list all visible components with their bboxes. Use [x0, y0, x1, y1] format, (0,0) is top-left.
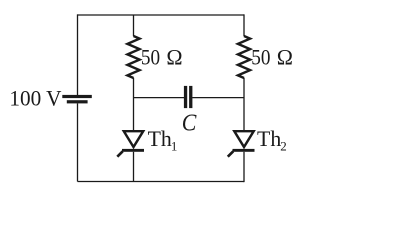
resistor R2 50 ohm (zigzag)	[238, 36, 250, 78]
svg-text:C: C	[182, 111, 198, 137]
wire: left rail lower (battery to bottom rail)	[77, 103, 79, 181]
wire: branch-1 upper (top rail to R1)	[133, 15, 135, 36]
resistor R1 50 ohm (zigzag)	[127, 36, 139, 78]
svg-text:100 V: 100 V	[9, 86, 61, 110]
wire: right rail lower (Th2 to bottom rail)	[243, 152, 245, 182]
wire: middle link left (branch-1 to capacitor)	[134, 97, 185, 99]
thyristor Th1 triangle (anode)	[124, 131, 143, 147]
capacitor C right plate	[189, 86, 192, 108]
wire: branch-1 middle (R1 to Th1)	[133, 78, 135, 131]
wire: branch-1 lower (Th1 to bottom rail)	[133, 152, 135, 182]
capacitor C left plate	[184, 86, 187, 108]
svg-text:Th1: Th1	[148, 127, 178, 154]
thyristor Th2 cathode bar	[233, 149, 255, 152]
wire: bottom rail	[78, 181, 245, 183]
svg-text:Ω: Ω	[277, 45, 293, 69]
svg-text:50: 50	[251, 45, 270, 69]
wire: right rail upper (top rail to R2)	[243, 14, 245, 36]
svg-text:50: 50	[141, 45, 160, 69]
svg-text:Th2: Th2	[257, 127, 287, 154]
wire: left rail upper (top rail to battery)	[77, 14, 79, 95]
wire: right rail middle (R2 to Th2)	[243, 78, 245, 131]
thyristor Th2 triangle (anode)	[234, 131, 253, 147]
svg-text:Ω: Ω	[166, 45, 182, 69]
battery 100 V (short bottom plate)	[67, 100, 88, 103]
thyristor Th2 gate lead	[228, 151, 233, 156]
thyristor Th1 cathode bar	[122, 149, 144, 152]
thyristor Th1 gate lead	[117, 151, 122, 156]
battery 100 V (long top plate)	[62, 95, 92, 98]
wire: middle link right (capacitor to right rail)	[192, 97, 244, 99]
wire: top rail	[78, 14, 245, 16]
